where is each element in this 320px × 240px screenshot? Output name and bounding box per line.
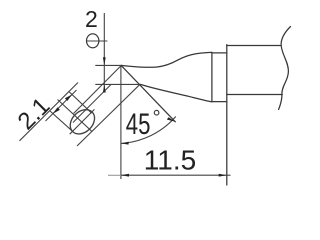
rim face — [211, 52, 213, 101]
face ellipse — [65, 105, 99, 139]
11.5 right arrow — [219, 174, 227, 177]
barrel bottom edge — [227, 94, 282, 96]
45 degree arc — [121, 117, 176, 144]
break squiggle — [279, 27, 291, 110]
collar top edge — [212, 52, 227, 54]
tip top contour — [121, 52, 212, 67]
svg-text:45: 45 — [126, 107, 151, 141]
ellipse major axis line — [70, 109, 95, 134]
11.5 left arrow — [121, 174, 129, 177]
barrel top edge — [227, 45, 281, 47]
ellipse minor axis line — [58, 100, 93, 132]
11.5 right overshoot — [227, 174, 231, 176]
phi2 dimension line — [103, 13, 105, 91]
svg-text:2: 2 — [85, 6, 98, 32]
45 arc arrow at vertical line — [121, 142, 129, 145]
svg-text:2.1: 2.1 — [13, 93, 56, 136]
heel extension line — [95, 83, 140, 85]
projection line D1 from heel extension — [73, 85, 111, 123]
2.1 text leader line — [20, 83, 79, 141]
phi2 bottom arrow — [103, 84, 106, 92]
2.1 extension line upper — [69, 92, 92, 114]
phi2 top extension tick — [95, 64, 121, 66]
2.1 dimension line — [46, 90, 77, 121]
svg-text:11.5: 11.5 — [144, 145, 196, 176]
projection line A from apex — [74, 66, 122, 114]
2.1 arrow lower — [53, 107, 60, 113]
collar bottom edge — [212, 101, 227, 103]
phi2 top arrow — [103, 57, 106, 65]
phi symbol stem (rotated phi) — [86, 40, 107, 42]
phi symbol circle (rotated phi) — [87, 34, 99, 48]
bevel edge and 45-degree ray — [121, 65, 175, 121]
2.1 extension line lower — [50, 111, 73, 132]
projection line B from heel — [77, 85, 140, 146]
tip bottom contour — [140, 84, 212, 101]
45 ray end arrow — [167, 117, 176, 122]
degree symbol of 45 — [154, 110, 159, 115]
apex vertical extension line — [120, 65, 122, 179]
barrel front face and 11.5 right extension line — [226, 45, 228, 185]
2.1 arrow upper — [65, 95, 72, 101]
11.5 left overshoot — [108, 174, 121, 176]
11.5 dimension line — [121, 174, 227, 176]
